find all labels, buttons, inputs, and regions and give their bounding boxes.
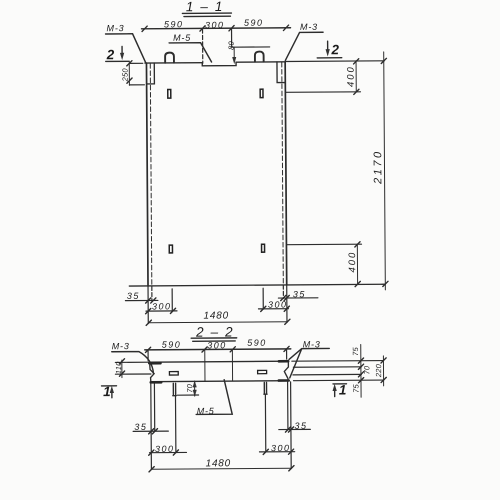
M-3 left underline and leader <box>106 34 146 63</box>
title 2-2 underline <box>191 338 237 341</box>
svg-text:80: 80 <box>227 40 236 49</box>
slab top line 2-2 <box>150 360 288 363</box>
slab top thick bar left <box>149 362 160 365</box>
title 1-1 <box>186 0 224 14</box>
M-5 recess in top edge <box>202 62 236 66</box>
svg-text:300: 300 <box>268 300 288 310</box>
label M-3 left 2-2 <box>112 341 130 351</box>
section mark 1 left <box>102 385 117 387</box>
svg-text:2170: 2170 <box>372 149 384 185</box>
pin below left <box>173 383 177 395</box>
svg-text:400: 400 <box>346 65 357 87</box>
svg-text:2: 2 <box>330 42 339 57</box>
lifting loop right <box>255 52 264 62</box>
title 2-2 <box>195 324 234 339</box>
svg-text:250: 250 <box>121 68 130 83</box>
panel left edge <box>146 63 148 286</box>
svg-text:590: 590 <box>164 19 184 29</box>
slot bottom-right <box>262 244 265 252</box>
dimension line top (590/300/590) <box>142 28 291 29</box>
ext line slot column left <box>171 289 173 311</box>
slab top thick bar right <box>279 360 288 363</box>
svg-text:70: 70 <box>362 365 371 374</box>
dim 1480 plan <box>203 310 229 321</box>
right extension line upper-mid <box>286 91 360 94</box>
slab bottom line 2-2 <box>150 380 288 383</box>
svg-text:М-3: М-3 <box>112 341 130 351</box>
svg-text:300: 300 <box>205 20 225 30</box>
section mark 2 right <box>330 42 339 57</box>
dimension 400 bottom <box>356 244 358 284</box>
right extension lines of 2-2 (4 levels) <box>292 360 384 363</box>
svg-text:1480: 1480 <box>203 310 229 321</box>
slab bottom thick bar right <box>279 379 289 382</box>
panel right edge <box>285 62 287 285</box>
svg-text:590: 590 <box>162 340 182 350</box>
dimension 70 under slab <box>194 381 196 396</box>
svg-text:1 – 1: 1 – 1 <box>186 0 224 14</box>
slab bottom thick bar left <box>151 381 161 384</box>
dim 300 bottom-right 2-2 <box>271 443 291 453</box>
dimension 250 left <box>128 63 130 86</box>
dim 35 bottom-right of plan <box>293 289 306 299</box>
ext dashes right down <box>282 285 284 298</box>
slab right end zigzag <box>284 362 288 381</box>
svg-text:1: 1 <box>103 384 111 399</box>
dim text 590 right 2-2 <box>247 338 267 348</box>
dimension 2170 <box>384 52 386 290</box>
svg-text:1: 1 <box>339 382 347 397</box>
svg-text:590: 590 <box>244 18 264 28</box>
label M-3 right 2-2 <box>303 339 321 349</box>
dimension 110 left <box>121 360 123 377</box>
right extension line top <box>286 60 384 63</box>
embed plate M-3 left (rect at top-left corner) <box>146 63 154 84</box>
dim text 300 2-2 <box>207 340 227 350</box>
dim text 590 left <box>164 19 184 29</box>
svg-text:2: 2 <box>106 47 115 62</box>
svg-text:М-5: М-5 <box>173 33 191 43</box>
channel divider right <box>231 350 233 381</box>
slab left end zigzag <box>150 365 154 381</box>
ext dashes left down <box>151 286 153 300</box>
dim 35 bottom-right 2-2 <box>294 421 307 431</box>
extension line dashed at x=204 <box>202 29 204 63</box>
ext right edge down <box>286 285 288 322</box>
section mark 1 right <box>333 383 346 385</box>
panel bottom edge (extended) <box>129 284 385 286</box>
slot section bar left <box>169 372 178 375</box>
slot section bar right <box>258 370 267 373</box>
M-3 right underline and leader <box>285 32 323 60</box>
svg-text:300: 300 <box>152 301 172 311</box>
dim text 590 left 2-2 <box>162 340 182 350</box>
right extension line lower-mid <box>287 243 361 246</box>
svg-text:75: 75 <box>352 383 361 392</box>
ext line slot column right <box>262 288 264 309</box>
M-5 underline and leader 2-2 <box>196 380 232 415</box>
bottom ext lines 2-2 <box>150 384 153 470</box>
svg-text:110: 110 <box>114 361 123 374</box>
dim text 590 right <box>244 18 264 28</box>
dimension 80 (loop height) <box>233 47 235 57</box>
svg-text:70: 70 <box>185 383 194 392</box>
embed plate M-3 right <box>277 62 285 83</box>
dimension 220 <box>382 356 384 386</box>
dimension line 2-2 top (590/300/590) <box>145 349 291 350</box>
slot top-right <box>260 89 263 97</box>
label M-5 top <box>173 33 191 43</box>
dim 300 bottom-right of plan <box>268 300 288 310</box>
svg-text:35: 35 <box>134 422 147 432</box>
title 1-1 underline <box>182 13 231 16</box>
svg-text:590: 590 <box>247 338 267 348</box>
slot top-left <box>168 90 171 99</box>
svg-text:М-3: М-3 <box>300 22 318 32</box>
panel top edge <box>145 62 285 63</box>
ext left edge down <box>147 286 149 323</box>
svg-text:М-3: М-3 <box>106 23 124 33</box>
M-5 underline and leader <box>169 43 211 63</box>
dim text 300 <box>205 20 225 30</box>
svg-text:1480: 1480 <box>206 458 232 469</box>
svg-text:400: 400 <box>347 251 358 273</box>
dim 300 bottom-left of plan <box>152 301 172 311</box>
label M-3 left <box>106 23 124 33</box>
dim 300 bottom-left 2-2 <box>155 444 175 454</box>
extension line at x=233 <box>231 29 233 46</box>
dim 1480 bottom 2-2 <box>206 458 232 469</box>
label M-3 right <box>300 22 318 32</box>
chain dimension line 75/70/75 <box>360 344 362 397</box>
dimension 400 top <box>355 61 357 92</box>
label M-5 bottom <box>197 406 215 416</box>
inner dashed line left <box>150 64 152 286</box>
dim 35 bottom-left 2-2 <box>134 422 147 432</box>
lifting loop left <box>165 53 174 63</box>
dim 35 bottom-left of plan <box>127 291 140 301</box>
svg-text:35: 35 <box>127 291 140 301</box>
svg-text:300: 300 <box>207 340 227 350</box>
tick marks top dims <box>142 25 289 31</box>
svg-text:220: 220 <box>374 363 383 378</box>
section mark 2 left <box>106 47 115 62</box>
channel divider left <box>204 350 206 381</box>
inner dashed line right <box>282 62 284 284</box>
slot bottom-left <box>169 245 172 253</box>
M-3 right underline and fork leaders <box>289 348 330 377</box>
svg-text:75: 75 <box>351 346 360 355</box>
ext verticals from 2-2 dim line <box>148 349 287 360</box>
M-3 left leader curve 2-2 <box>112 351 154 374</box>
pin below right <box>264 382 267 394</box>
